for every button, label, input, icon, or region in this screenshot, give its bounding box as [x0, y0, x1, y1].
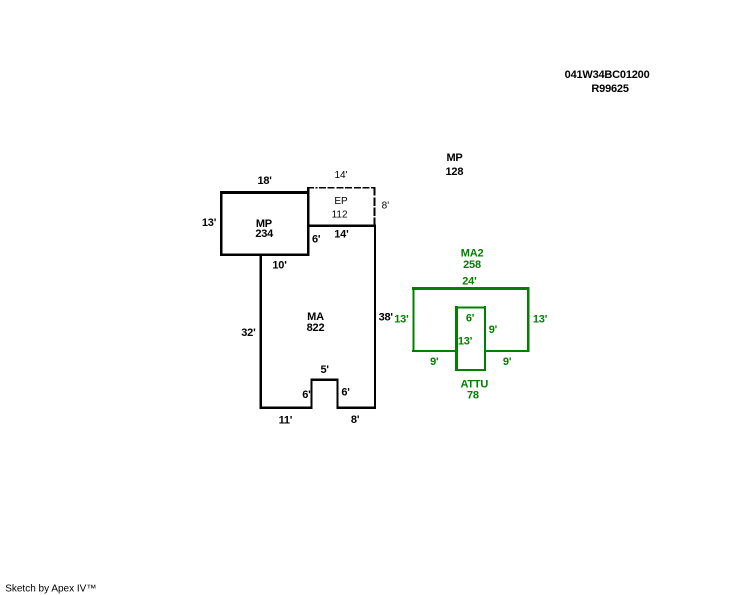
- wall MA notch left: [311, 378, 313, 409]
- svg-text:10': 10': [272, 260, 287, 272]
- wall MA notch top: [311, 378, 339, 381]
- svg-text:8': 8': [382, 201, 390, 212]
- svg-text:9': 9': [503, 356, 512, 368]
- svg-text:24': 24': [462, 276, 477, 288]
- wall MA2 bottom left segment: [412, 350, 456, 352]
- wall MA right: [374, 224, 376, 409]
- svg-text:13': 13': [458, 335, 473, 347]
- svg-text:32': 32': [241, 327, 256, 339]
- svg-text:9': 9': [430, 356, 439, 368]
- wall EP top dashed: [307, 187, 375, 189]
- svg-text:258: 258: [463, 259, 481, 271]
- svg-text:R99625: R99625: [591, 83, 628, 95]
- svg-text:14': 14': [334, 228, 349, 240]
- wall ATTU right: [484, 306, 486, 371]
- wall MA2 bottom right segment: [485, 350, 529, 352]
- wall MA notch right: [336, 378, 338, 409]
- svg-text:13': 13': [394, 314, 409, 326]
- svg-text:112: 112: [332, 209, 348, 220]
- svg-text:14': 14': [334, 170, 347, 181]
- svg-text:6': 6': [312, 234, 321, 246]
- wall MA bottom left segment: [260, 406, 313, 409]
- wall MA left: [260, 253, 262, 409]
- svg-text:6': 6': [302, 389, 311, 401]
- wall MA2 left: [412, 287, 414, 352]
- svg-text:EP: EP: [334, 196, 348, 207]
- svg-text:MP: MP: [446, 152, 462, 164]
- wall ATTU left: [455, 306, 458, 371]
- svg-text:234: 234: [255, 228, 274, 240]
- svg-text:041W34BC01200: 041W34BC01200: [565, 69, 650, 81]
- svg-text:78: 78: [467, 390, 479, 402]
- svg-text:13': 13': [533, 314, 548, 326]
- svg-text:13': 13': [202, 217, 217, 229]
- wall EP bottom / MA top: [307, 224, 376, 227]
- wall MP left: [220, 191, 222, 256]
- svg-text:9': 9': [489, 324, 498, 336]
- wall MA bottom right segment: [336, 406, 376, 409]
- svg-text:MA2: MA2: [461, 248, 484, 260]
- svg-text:822: 822: [307, 322, 325, 334]
- wall MA2 top: [412, 287, 529, 290]
- svg-text:Sketch by Apex IV™: Sketch by Apex IV™: [5, 584, 96, 595]
- wall MP bottom: [220, 253, 309, 255]
- wall EP right dashed: [374, 187, 376, 225]
- wall MA2 right: [527, 287, 530, 352]
- wall MP top: [220, 191, 309, 194]
- svg-text:6': 6': [341, 387, 350, 399]
- svg-text:38': 38': [379, 312, 394, 324]
- svg-text:18': 18': [257, 175, 272, 187]
- wall ATTU bottom: [455, 369, 486, 371]
- svg-text:8': 8': [351, 414, 360, 426]
- wall MP right / EP left: [307, 187, 309, 256]
- wall ATTU top: [455, 306, 486, 308]
- svg-text:6': 6': [466, 312, 475, 324]
- svg-text:128: 128: [446, 166, 464, 178]
- svg-text:11': 11': [279, 415, 293, 427]
- svg-text:5': 5': [321, 364, 330, 376]
